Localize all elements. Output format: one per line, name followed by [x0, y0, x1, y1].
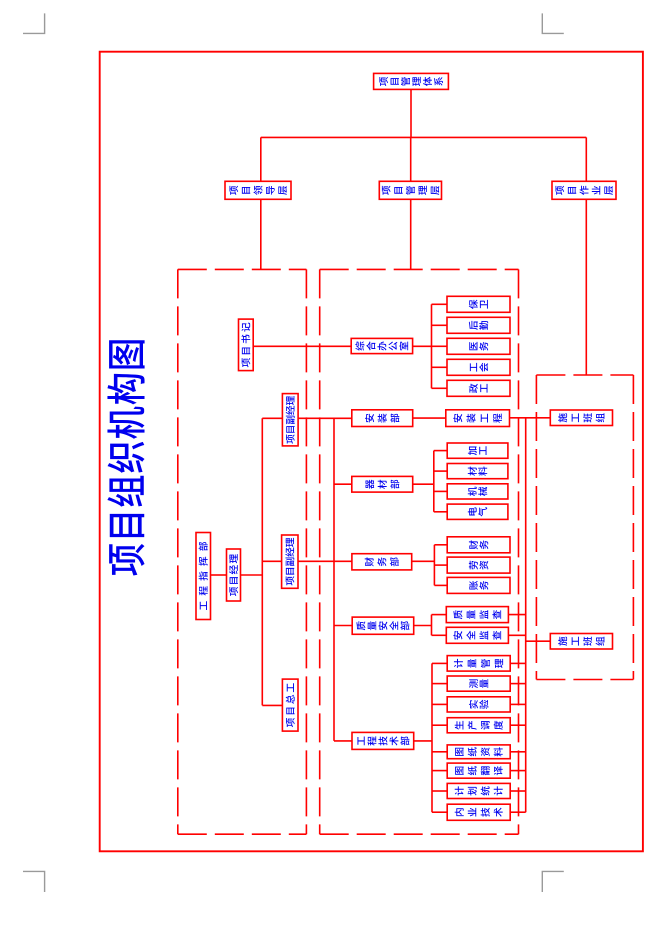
wire stub 材料 — [434, 470, 447, 472]
wire 图纸翻译 right stub — [510, 770, 526, 772]
wire finance sub-bus — [433, 545, 435, 586]
wire stub 内业技术 — [432, 811, 447, 813]
wire stub 机械 — [434, 490, 447, 492]
box U21: 劳资 — [447, 557, 510, 573]
box T3: 项目副经理 — [282, 535, 298, 588]
box U_生产调度: 生产调度 — [447, 718, 510, 733]
box U6: 保卫 — [447, 296, 510, 312]
box U8: 医务 — [447, 338, 510, 354]
box U14: 加工 — [447, 443, 508, 458]
box U10: 政工 — [447, 380, 510, 396]
wire 安全监查 right stub — [508, 634, 525, 636]
box U18: 器材部 — [352, 476, 413, 492]
box U25: 安全监查 — [446, 627, 508, 643]
wire 项目经理 to left bus — [241, 574, 263, 576]
wire admin sub-bus — [431, 304, 433, 388]
wire stub 生产调度 — [432, 724, 447, 726]
wire 项目作业层 to right group — [585, 199, 587, 375]
box U19: 财务部 — [352, 554, 412, 570]
box U_计划统计: 计划统计 — [447, 783, 510, 798]
crop mark bottom-right — [542, 871, 564, 892]
title 项目组织机构图 — [107, 340, 144, 575]
box U16: 机械 — [447, 484, 508, 499]
box U13: 施工班组 — [550, 410, 612, 426]
box U4: 项目作业层 — [552, 181, 616, 199]
box U11: 安装部 — [352, 410, 413, 427]
wire stub 加工 — [434, 450, 447, 452]
wire 项目书记 - 综合办公室 — [253, 345, 351, 347]
wire root drop — [410, 89, 412, 137]
wire 安装部 - 安装工程 — [413, 417, 446, 419]
wire 生产调度 right stub — [510, 724, 526, 726]
wire material sub-bus — [433, 451, 435, 512]
wire feeder 施工班组2 — [526, 640, 551, 642]
wire 计划统计 right stub — [510, 790, 526, 792]
wire stub 工会 — [432, 366, 448, 368]
wire stub 图纸资料 — [432, 751, 447, 753]
wire stub 测量 — [432, 683, 447, 685]
box U17: 电气 — [447, 504, 508, 519]
box U27: 工程技术部 — [352, 732, 414, 749]
wire 项目领导层 to left group — [260, 199, 262, 269]
box T1: 项目书记 — [239, 319, 254, 371]
wire stub 电气 — [434, 511, 447, 513]
wire 工程指挥部 - 项目经理 — [211, 574, 227, 576]
box U_图纸资料: 图纸资料 — [447, 745, 510, 759]
box U5: 综合办公室 — [351, 338, 412, 353]
wire 质量监查 right stub — [508, 614, 525, 616]
box U23: 质量安全部 — [352, 617, 414, 634]
box T6: 工程指挥部 — [196, 533, 211, 620]
box U_计量管理: 计量管理 — [447, 656, 510, 672]
box U26: 施工班组 — [550, 634, 612, 650]
drawing sheet border frame — [100, 52, 643, 852]
box U15: 材料 — [447, 464, 508, 479]
dashed group box 项目领导层 group — [178, 269, 307, 834]
wire stub 图纸翻译 — [432, 770, 447, 772]
dashed group box 项目作业层 group — [536, 375, 633, 680]
box U7: 后勤 — [447, 317, 510, 333]
box U_测量: 测量 — [447, 676, 510, 691]
box U24: 质量监查 — [446, 607, 508, 623]
box U2: 项目领导层 — [225, 181, 291, 199]
crop mark bottom-left — [23, 871, 45, 892]
wire 项目副经理1 - 安装部 — [298, 417, 352, 419]
wire stub 保卫 — [432, 303, 448, 305]
box U12: 安装工程 — [446, 410, 510, 427]
wire stub 劳资 — [434, 564, 447, 566]
wire stub 实验 — [432, 703, 447, 705]
box T5: 项目经理 — [227, 549, 241, 601]
wire stub 计量管理 — [432, 662, 447, 664]
dashed group box 项目管理层 group — [320, 269, 519, 834]
box U_内业技术: 内业技术 — [447, 804, 510, 820]
wire 财务部 to finance bus — [412, 560, 435, 562]
wire stub 账务 — [434, 584, 447, 586]
box root: 项目管理体系 — [374, 73, 449, 89]
box U_图纸翻译: 图纸翻译 — [447, 763, 510, 778]
box U3: 项目管理层 — [379, 181, 441, 199]
wire QA sub-bus — [431, 615, 433, 636]
wire stub 政工 — [432, 387, 448, 389]
crop mark top-right — [542, 13, 564, 33]
wire feeder 项目副经理1 — [262, 417, 282, 419]
wire feeder 器材部 — [334, 483, 352, 485]
wire stub 医务 — [432, 345, 448, 347]
box T2: 项目副经理 — [282, 394, 298, 446]
wire drop to 项目作业层 — [585, 137, 587, 181]
wire 质量安全部 to QA bus — [414, 625, 432, 627]
wire feeder 工程技术部 — [334, 740, 352, 742]
wire level-1 distribution line — [261, 136, 587, 138]
wire 安装工程 - 施工班组1 — [510, 417, 551, 419]
wire feeder 质量安全部 — [334, 625, 352, 627]
box U20: 财务 — [447, 537, 510, 553]
wire 内业技术 right stub — [510, 811, 526, 813]
wire 测量 right stub — [510, 683, 526, 685]
wire stub 计划统计 — [432, 790, 447, 792]
wire 项目副经理2 - 财务部 — [298, 560, 352, 562]
box T4: 项目总工 — [282, 679, 298, 731]
wire 图纸资料 right stub — [510, 751, 526, 753]
box U9: 工会 — [447, 359, 510, 375]
wire stub 质量监查 — [432, 614, 447, 616]
wire 计量管理 right stub — [510, 662, 526, 664]
wire 项目管理层 to center group — [410, 199, 412, 269]
wire tech sub-bus — [431, 663, 433, 812]
wire stub 后勤 — [432, 324, 448, 326]
box U_实验: 实验 — [447, 697, 510, 712]
wire 综合办公室 to admin bus — [413, 345, 432, 347]
wire 器材部 to material bus — [413, 483, 434, 485]
wire drop to 项目管理层 — [410, 137, 412, 181]
wire 工程技术部 to tech bus — [414, 740, 432, 742]
wire right bus — [525, 418, 527, 813]
wire stub 财务 — [434, 544, 447, 546]
wire feeder 项目副经理2 — [262, 560, 281, 562]
wire left bus — [261, 418, 263, 705]
wire drop to 项目领导层 — [260, 137, 262, 181]
box U22: 账务 — [447, 577, 510, 593]
wire feeder 项目总工 — [262, 704, 282, 706]
crop mark top-left — [23, 13, 45, 33]
wire 实验 right stub — [510, 703, 526, 705]
wire stub 安全监查 — [432, 634, 447, 636]
wire middle bus — [333, 418, 335, 741]
